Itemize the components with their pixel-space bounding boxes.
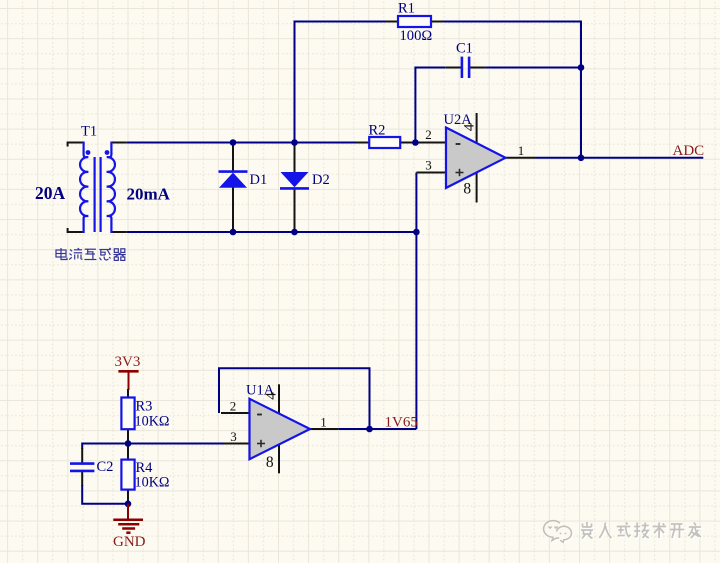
capacitor C2 xyxy=(70,448,94,486)
svg-text:8: 8 xyxy=(266,454,274,471)
svg-text:3: 3 xyxy=(230,429,237,444)
C1 plates xyxy=(461,57,464,78)
char qian xyxy=(581,522,593,539)
pin R4 bottom xyxy=(127,490,129,504)
pin R3 bottom xyxy=(127,429,129,443)
pin U1A 2 xyxy=(221,412,250,414)
junction ground node xyxy=(125,501,132,508)
svg-text:8: 8 xyxy=(463,181,471,198)
T1 polarity dot right xyxy=(105,150,110,155)
pin T1 bottom-left xyxy=(68,228,84,232)
svg-text:C2: C2 xyxy=(97,459,114,475)
svg-text:20A: 20A xyxy=(35,183,66,203)
wire pin3 vertical to 1V65 node xyxy=(415,173,417,430)
pin D2 bottom xyxy=(294,188,296,233)
U1A plus xyxy=(257,443,265,445)
svg-text:4: 4 xyxy=(263,392,279,400)
pin D1 bottom xyxy=(232,188,234,233)
pin T1 bottom-right xyxy=(111,231,126,233)
junction C1 right xyxy=(578,64,585,71)
svg-text:4: 4 xyxy=(461,123,477,131)
D2 body xyxy=(281,172,309,187)
U1A minus xyxy=(257,414,262,416)
U1A power line xyxy=(278,384,280,473)
R2 body xyxy=(369,137,400,148)
svg-text:20mA: 20mA xyxy=(127,185,171,204)
diode D2 xyxy=(280,143,309,233)
svg-text:D2: D2 xyxy=(312,172,330,188)
watermark wechat logo xyxy=(544,521,573,544)
pin T1 top-right xyxy=(111,142,126,144)
char qi xyxy=(114,249,126,261)
junction U1A output feedback xyxy=(366,426,373,433)
wire divider mid to U1A pin3 xyxy=(128,443,224,445)
pin R4 top xyxy=(127,444,129,460)
resistor R1 xyxy=(385,16,444,27)
R1 body xyxy=(398,16,431,27)
pin C1 left xyxy=(445,67,461,69)
pin D2 top xyxy=(294,143,296,173)
wire top feedback loop right + right vertical to output xyxy=(444,22,581,158)
watermark text qianrushi jishu kaifa xyxy=(581,522,702,540)
pin U1A 3 xyxy=(224,443,250,445)
pin T1 top-left xyxy=(68,143,84,147)
junction top rail D2 / R1 loop xyxy=(291,139,298,146)
pin R1 left xyxy=(385,21,398,23)
svg-text:10KΩ: 10KΩ xyxy=(135,475,170,491)
ground symbol GND xyxy=(113,504,143,533)
pin R2 left xyxy=(356,142,369,144)
op-amp U2A xyxy=(415,113,536,203)
diode D1 xyxy=(219,143,248,233)
T1 polarity dot left xyxy=(86,150,91,155)
svg-text:D1: D1 xyxy=(250,172,268,188)
pin U1A 1 output xyxy=(310,428,338,430)
char hu xyxy=(84,249,96,259)
junction bottom rail D2 xyxy=(291,229,298,236)
wire C2 bottom to ground node xyxy=(82,485,128,504)
R4 body xyxy=(121,460,134,490)
U2A minus xyxy=(456,143,461,145)
T1 right coil xyxy=(107,142,115,234)
svg-text:10KΩ: 10KΩ xyxy=(135,414,170,430)
svg-text:2: 2 xyxy=(230,399,237,414)
wire bottom rail xyxy=(127,231,417,233)
pin D1 top xyxy=(232,143,234,173)
op-amp U1A xyxy=(221,384,338,473)
svg-text:1: 1 xyxy=(518,143,525,158)
wire U2A output to ADC xyxy=(536,157,703,159)
resistor R3 xyxy=(121,389,134,444)
char shi xyxy=(617,523,631,537)
transformer T1 xyxy=(68,142,127,234)
svg-text:1: 1 xyxy=(320,415,327,430)
label dianliu hu gan qi (current transformer caption) xyxy=(56,248,126,260)
pin C1 right xyxy=(470,67,486,69)
char kai xyxy=(670,524,684,538)
char ru xyxy=(599,523,611,539)
R3 body xyxy=(121,398,134,430)
wire U1A output xyxy=(338,428,416,430)
T1 core lines xyxy=(93,157,95,232)
D1 body xyxy=(219,173,247,188)
resistor R2 xyxy=(356,137,415,148)
U2A plus xyxy=(456,172,464,174)
svg-text:R1: R1 xyxy=(398,1,415,17)
junction divider mid xyxy=(125,440,132,447)
pin R2 right xyxy=(400,142,415,144)
svg-text:3: 3 xyxy=(425,158,432,173)
svg-text:ADC: ADC xyxy=(673,143,705,159)
svg-text:1V65: 1V65 xyxy=(385,415,418,431)
T1 left coil xyxy=(80,142,88,234)
char shu xyxy=(653,523,667,539)
junction pin2 node xyxy=(412,139,419,146)
D1 cathode bar xyxy=(219,170,248,173)
wire top feedback loop left+top xyxy=(295,22,386,143)
pin C2 top xyxy=(81,448,83,463)
char dian xyxy=(56,248,67,260)
svg-text:100Ω: 100Ω xyxy=(400,28,433,44)
wire top rail xyxy=(127,142,356,144)
junction bottom rail pin3 xyxy=(413,229,420,236)
svg-text:3V3: 3V3 xyxy=(115,354,141,370)
junction top rail D1 xyxy=(230,139,237,146)
char ji xyxy=(634,523,649,539)
svg-text:R2: R2 xyxy=(369,123,386,139)
wire divider mid to C2 top xyxy=(82,444,128,450)
svg-text:R3: R3 xyxy=(136,399,153,415)
U2A power line xyxy=(476,113,478,203)
char gan xyxy=(99,248,111,260)
power symbol 3V3 xyxy=(118,371,138,390)
C2 plates xyxy=(70,462,94,465)
pin U2A 2 xyxy=(415,142,446,144)
svg-text:GND: GND xyxy=(113,534,146,550)
pin U2A 3 xyxy=(416,172,446,174)
junction bottom rail D1 xyxy=(230,229,237,236)
pin U2A 1 output xyxy=(506,157,537,159)
U1A body xyxy=(250,399,311,459)
wire C1 branch left vertical xyxy=(415,68,445,143)
pin R1 right xyxy=(431,21,444,23)
capacitor C1 xyxy=(445,57,485,78)
char fa xyxy=(688,523,701,539)
junction output node xyxy=(578,155,585,162)
U2A body xyxy=(446,128,506,188)
svg-text:C1: C1 xyxy=(456,41,473,57)
svg-text:2: 2 xyxy=(425,127,432,142)
wire U1A feedback loop xyxy=(219,368,370,429)
wire C1 right to vertical xyxy=(485,67,581,69)
char liu xyxy=(69,248,82,260)
resistor R4 xyxy=(121,444,134,504)
pin C2 bottom xyxy=(81,472,83,486)
pin R3 top xyxy=(127,389,129,398)
D2 cathode bar xyxy=(280,187,309,190)
svg-text:T1: T1 xyxy=(81,124,97,140)
